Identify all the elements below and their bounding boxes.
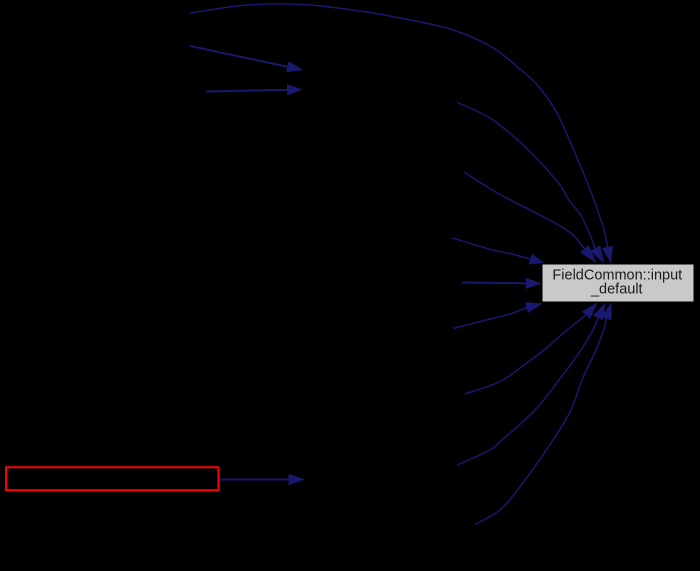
- arrowhead E11: [601, 303, 612, 321]
- arrowhead E12: [289, 474, 306, 485]
- node FieldCommon::input_default (grey box): [542, 264, 694, 302]
- arrowhead E1: [602, 246, 613, 264]
- arrowhead E6: [529, 254, 545, 265]
- svg-text:_default: _default: [590, 282, 643, 298]
- arrowhead E2: [286, 61, 303, 72]
- edge E7 horizontal: [462, 282, 526, 285]
- arrowhead E5: [580, 245, 597, 263]
- edge E3 caller to mid node: [206, 90, 287, 92]
- edge E12 from current node: [220, 479, 289, 481]
- edge E8: [454, 308, 527, 329]
- edge E6: [453, 238, 531, 259]
- edge E1 arc from top-left caller: [190, 4, 608, 247]
- arrowhead E7: [526, 278, 543, 289]
- arrowhead E3: [287, 84, 303, 95]
- edge E2 caller to mid node: [190, 46, 287, 67]
- arrowhead E8: [525, 302, 542, 313]
- arrowhead E4: [590, 245, 604, 263]
- arrowhead E10: [593, 303, 606, 321]
- current node (red outline): [6, 467, 219, 490]
- edge E10: [457, 318, 598, 465]
- arrowhead E9: [582, 303, 598, 319]
- edge E4: [458, 103, 596, 249]
- edge E11: [475, 319, 606, 525]
- edge E9: [465, 315, 586, 394]
- edge E5: [464, 172, 584, 249]
